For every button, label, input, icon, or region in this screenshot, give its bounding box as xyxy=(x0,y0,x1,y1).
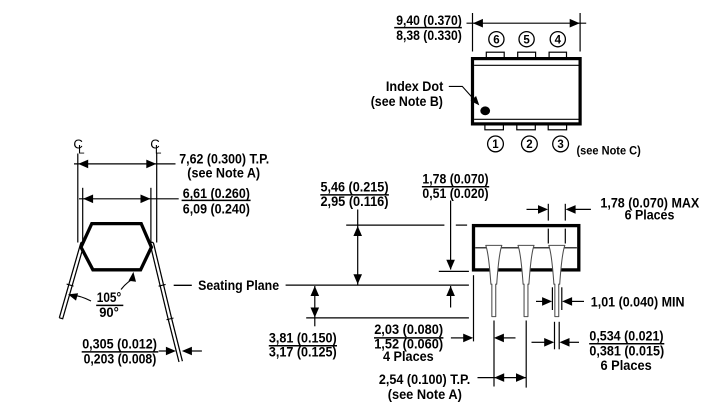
svg-text:2,54 (0.100) T.P.: 2,54 (0.100) T.P. xyxy=(379,372,470,388)
dim 1,78MAX left dashed line xyxy=(547,204,549,221)
dim 0,534 right arrow xyxy=(560,338,570,347)
dim 0,305 right arrow xyxy=(182,347,192,356)
svg-text:6 Places: 6 Places xyxy=(625,208,675,224)
dim 7,62 right extension line xyxy=(156,154,158,243)
dim 1,01 left arrow xyxy=(536,300,546,302)
svg-text:4: 4 xyxy=(555,34,562,46)
svg-text:90°: 90° xyxy=(99,305,119,321)
dim 9,40 right extension line xyxy=(579,13,581,52)
label fraction bar 3,81/3,17 xyxy=(269,345,337,347)
dim 0,534 left arrow xyxy=(532,341,547,343)
index dot leader arrow xyxy=(471,96,480,105)
svg-text:(see Note A): (see Note A) xyxy=(187,165,260,181)
dim 9,40 right arrow xyxy=(570,19,580,28)
svg-text:1,01 (0.040) MIN: 1,01 (0.040) MIN xyxy=(591,294,685,310)
top view pin 6 tab xyxy=(486,52,504,59)
dim 5,46 up arrow xyxy=(353,226,362,236)
svg-text:2: 2 xyxy=(526,139,532,151)
dim 0,51 lower shaft xyxy=(450,286,452,308)
top view pin 2 tab xyxy=(517,123,536,130)
top view package body xyxy=(473,59,581,124)
label fraction bar 0,305/0,203 xyxy=(82,351,159,353)
svg-text:4 Places: 4 Places xyxy=(383,349,434,365)
svg-text:0,305 (0.012): 0,305 (0.012) xyxy=(82,337,157,353)
top view body inner line bottom xyxy=(474,118,578,120)
dim 0,534 left extension line xyxy=(554,322,556,350)
pin 2 circle xyxy=(522,136,538,152)
left view left lead xyxy=(59,242,84,318)
dim 2,03 left arrow at pin1 xyxy=(494,334,504,343)
dim 3,81 shaft xyxy=(314,286,316,326)
dim 6,61 right arrow xyxy=(141,195,151,204)
pin 3 circle xyxy=(553,136,569,152)
svg-text:0,203 (0.008): 0,203 (0.008) xyxy=(84,351,157,367)
pin 4 circle xyxy=(550,32,565,47)
dim 0,51 down arrow xyxy=(446,260,455,270)
svg-text:105°: 105° xyxy=(97,290,122,306)
svg-text:8,38 (0.330): 8,38 (0.330) xyxy=(396,28,462,44)
left view right lead upper xyxy=(150,242,171,319)
left lead seating tick xyxy=(67,284,74,286)
body left edge extension line xyxy=(473,275,475,341)
dim 1,78MAX right dashed line xyxy=(564,204,566,221)
svg-text:0,51 (0.020): 0,51 (0.020) xyxy=(422,186,488,202)
pin 1 circle xyxy=(488,136,504,152)
dim 2,54 left arrow xyxy=(494,373,504,382)
seating plane dash left of text xyxy=(174,284,192,286)
svg-text:Index Dot: Index Dot xyxy=(386,79,444,94)
top view pin 4 tab xyxy=(549,52,566,59)
dim 6,61 line xyxy=(79,198,179,200)
top view pin 1 tab xyxy=(485,123,504,130)
dim 5,46 shaft xyxy=(357,210,359,285)
label fraction bar 105/90 xyxy=(96,304,123,306)
side view pin 1 xyxy=(486,245,502,316)
pin 2 centerline extension xyxy=(525,321,527,388)
side view pin 3 xyxy=(549,245,565,316)
pin 6 circle xyxy=(489,32,504,47)
dim 1,78MAX right arrow xyxy=(566,205,576,214)
dim 9,40 left arrow xyxy=(473,19,483,28)
svg-text:6 Places: 6 Places xyxy=(601,358,652,374)
pin tip extension line xyxy=(306,317,469,319)
label fraction bar 0,534/0,381 xyxy=(589,343,664,345)
angle leader to left lead xyxy=(73,295,92,301)
side view package body xyxy=(474,226,579,270)
pin 5 circle xyxy=(519,32,534,47)
dim 3,81 down arrow xyxy=(311,308,320,318)
svg-text:3: 3 xyxy=(557,139,563,151)
svg-text:2,95 (0.116): 2,95 (0.116) xyxy=(320,194,388,210)
svg-text:6,09 (0.240): 6,09 (0.240) xyxy=(183,201,250,217)
svg-text:5: 5 xyxy=(523,34,530,46)
svg-text:L: L xyxy=(155,142,162,156)
angle leader to bottom face xyxy=(121,280,132,290)
dim 1,01 left extension line xyxy=(551,287,553,310)
svg-text:Seating Plane: Seating Plane xyxy=(198,278,279,293)
svg-text:(see Note B): (see Note B) xyxy=(371,94,443,109)
end view body hexagon xyxy=(81,224,151,270)
svg-text:L: L xyxy=(78,142,85,156)
label fraction bar 5,46/2,95 xyxy=(320,194,389,196)
svg-text:5,46 (0.215): 5,46 (0.215) xyxy=(320,179,388,195)
left view right lead tip xyxy=(168,319,182,362)
body bottom extension line xyxy=(439,270,469,272)
side view body parting line xyxy=(475,247,577,249)
dim 0,305 left arrow xyxy=(159,350,169,352)
dim 1,01 right arrow xyxy=(562,297,572,306)
right lead transition tick xyxy=(167,318,174,320)
svg-text:1: 1 xyxy=(492,139,499,151)
side view pin 2 xyxy=(518,245,534,316)
dim 0,51 upper shaft xyxy=(450,201,452,270)
svg-text:0,381 (0.015): 0,381 (0.015) xyxy=(589,343,664,359)
dim 2,54 right arrow xyxy=(516,373,526,382)
index dot xyxy=(480,106,490,115)
label fraction bar 9,40/8,38 xyxy=(394,27,462,29)
dim 9,40 line xyxy=(467,22,587,24)
svg-text:6: 6 xyxy=(493,34,499,46)
top view pin 5 tab xyxy=(518,52,536,59)
label fraction bar 1,78/0,51 xyxy=(422,186,489,188)
dim 6,61 left arrow xyxy=(83,195,93,204)
dim 9,40 left extension line xyxy=(472,13,474,52)
dim 7,62 left extension line xyxy=(77,154,79,243)
body top extension line xyxy=(346,224,444,226)
svg-text:9,40 (0.370): 9,40 (0.370) xyxy=(396,13,462,29)
dim 0,534 right extension line xyxy=(558,322,560,350)
dim 5,46 down arrow xyxy=(353,274,362,284)
seating plane line xyxy=(286,284,469,286)
dim 1,01 right extension line xyxy=(561,287,563,310)
pin 1 centerline extension xyxy=(493,321,495,387)
top view body inner line top xyxy=(474,64,578,66)
svg-text:1,78 (0.070): 1,78 (0.070) xyxy=(422,171,488,187)
dim 3,81 up arrow xyxy=(311,286,320,296)
dim 7,62 line xyxy=(74,163,176,165)
dim 7,62 right arrow xyxy=(146,160,156,169)
svg-text:(see Note C): (see Note C) xyxy=(577,143,641,157)
label fraction bar 2,03/1,52 xyxy=(374,337,443,339)
dim 1,78MAX left arrow xyxy=(527,208,541,210)
label fraction bar 6,61/6,09 xyxy=(182,199,251,201)
svg-text:0,534 (0.021): 0,534 (0.021) xyxy=(589,329,663,345)
top view pin 3 tab xyxy=(548,123,566,130)
dim 0,51 up arrow xyxy=(446,286,455,296)
svg-text:(see Note A): (see Note A) xyxy=(388,387,462,403)
dim 6,61 left extension line xyxy=(82,188,84,243)
dim 2,54 line xyxy=(478,377,527,379)
right lead seating tick xyxy=(159,284,166,286)
dim 2,03 leader arrow xyxy=(451,337,466,339)
svg-text:3,17 (0.125): 3,17 (0.125) xyxy=(269,345,337,361)
dim 6,61 right extension line xyxy=(150,188,152,243)
index dot leader xyxy=(449,86,477,102)
dim 7,62 left arrow xyxy=(78,160,88,169)
